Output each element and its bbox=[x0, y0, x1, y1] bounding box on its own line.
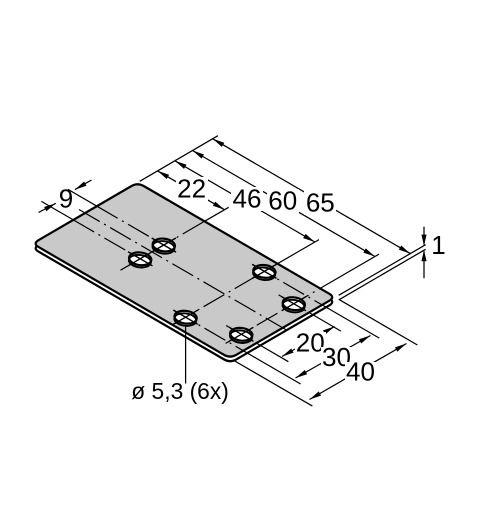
center line column a=60 bbox=[226, 288, 321, 343]
dimension 22 bbox=[158, 171, 225, 210]
label 30 bbox=[321, 347, 352, 369]
label 22 bbox=[176, 177, 208, 201]
dimension 65 bbox=[213, 139, 411, 254]
plate top face bbox=[36, 184, 333, 356]
extension line b=40 from right corner bbox=[340, 300, 418, 345]
hole h3 (46,35) bbox=[252, 264, 276, 282]
dimension 1 (thickness) bbox=[423, 227, 425, 245]
center line column a=46 bbox=[173, 264, 278, 325]
label 65 bbox=[304, 191, 336, 215]
label 40 bbox=[345, 362, 376, 384]
extension line a=0 from top corner bbox=[140, 136, 218, 182]
hole h2 (22,24.5) bbox=[152, 237, 176, 255]
center line main axis b=20 bbox=[79, 210, 286, 330]
hole h4 (60,30) bbox=[282, 296, 306, 314]
hole h1 (22,15.5) bbox=[128, 251, 152, 269]
center line row b=15.5 bbox=[73, 220, 152, 266]
center line row b=5 bbox=[173, 310, 243, 351]
dimension 9 (outside arrows) bbox=[39, 203, 56, 212]
dimension 60 bbox=[193, 151, 375, 257]
plate bottom face (thickness) bbox=[36, 189, 333, 361]
center line row b=30 bbox=[279, 295, 309, 313]
dimension 30 bbox=[296, 336, 371, 379]
svg-text:40: 40 bbox=[346, 357, 375, 387]
svg-text:22: 22 bbox=[177, 174, 206, 204]
extension line b=0 from bottom corner bbox=[235, 361, 313, 406]
leader line hole label bbox=[185, 327, 187, 384]
center line row b=24.5 bbox=[97, 206, 176, 252]
svg-text:60: 60 bbox=[268, 186, 297, 216]
svg-text:1: 1 bbox=[431, 230, 445, 260]
svg-text:9: 9 bbox=[59, 184, 73, 214]
center line row b=35 bbox=[252, 264, 322, 305]
svg-text:ø 5,3 (6x): ø 5,3 (6x) bbox=[131, 378, 229, 404]
dimension 20 bbox=[282, 327, 335, 357]
center line row b=10 bbox=[226, 326, 256, 344]
hole h6 (60,10) bbox=[229, 327, 253, 345]
extension line a=65 top (from right corner) bbox=[339, 245, 426, 296]
label 20 bbox=[295, 332, 326, 354]
label 60 bbox=[267, 189, 299, 213]
dimension 46 bbox=[175, 161, 315, 242]
svg-text:65: 65 bbox=[306, 188, 335, 218]
svg-text:46: 46 bbox=[233, 184, 262, 214]
svg-text:20: 20 bbox=[296, 328, 325, 358]
center line column a=22 bbox=[121, 221, 205, 270]
label 46 bbox=[231, 187, 263, 211]
hole h5 (46,5) bbox=[173, 310, 197, 328]
extension line a=65 bottom (thickness) bbox=[339, 249, 426, 300]
dimension 40 bbox=[310, 344, 407, 400]
